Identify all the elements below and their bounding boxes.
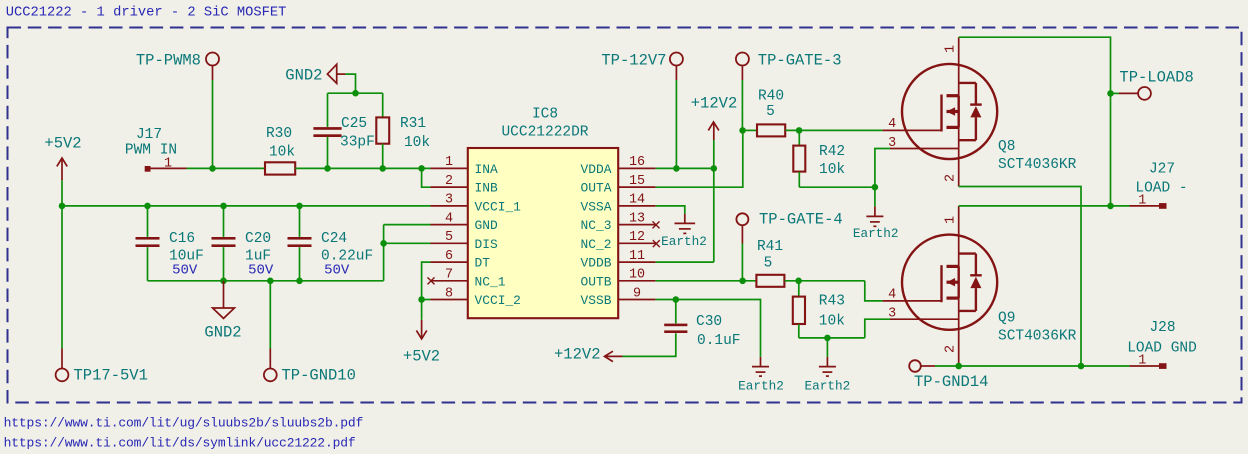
- wire C30 bottom: [623, 333, 676, 356]
- IC8 right pin 14 VSSA: [618, 205, 655, 207]
- no-connect X on pin 13 NC_3: [653, 221, 660, 228]
- svg-text:10k: 10k: [819, 162, 845, 178]
- svg-text:R42: R42: [819, 144, 845, 160]
- transistor Q9 SCT4036KR (N-MOSFET): [902, 235, 997, 330]
- svg-text:C20: C20: [245, 231, 271, 247]
- node R42 top junction: [796, 127, 803, 134]
- wire R41 to Q9 gate: [785, 280, 865, 282]
- svg-text:0.1uF: 0.1uF: [697, 333, 741, 349]
- wire R30 to INA node: [295, 167, 430, 169]
- power symbol +12V2 (arrow left): [605, 351, 613, 361]
- svg-text:Q9: Q9: [998, 311, 1015, 327]
- svg-text:+12V2: +12V2: [691, 95, 738, 113]
- node INB branch junction: [418, 165, 425, 172]
- svg-text:2: 2: [944, 345, 959, 353]
- IC8 left pin 7 NC_1: [431, 280, 468, 282]
- capacitor C24 0.22uF 50V: [299, 206, 301, 237]
- svg-text:R30: R30: [266, 126, 292, 142]
- svg-text:1: 1: [1138, 353, 1146, 368]
- IC8 left pin 5 DIS: [431, 242, 468, 244]
- wire TP-PWM8 down: [212, 80, 214, 168]
- svg-text:NC_2: NC_2: [581, 237, 612, 252]
- op-amp / driver IC8 UCC21222DR body: [468, 148, 618, 318]
- node R40 input junction: [739, 127, 746, 134]
- wire VDDA to +12V rail: [656, 167, 714, 169]
- resistor R30 10k: [265, 162, 295, 174]
- transistor Q8 SCT4036KR (N-MOSFET): [902, 64, 997, 159]
- wire R40 to Q8 gate: [785, 129, 882, 131]
- node VCCI_2 junction: [418, 296, 425, 303]
- svg-text:TP-LOAD8: TP-LOAD8: [1119, 68, 1193, 86]
- svg-text:50V: 50V: [172, 262, 198, 278]
- svg-text:TP-PWM8: TP-PWM8: [136, 51, 201, 69]
- svg-text:GND2: GND2: [285, 66, 322, 84]
- IC8 left pin 4 GND: [431, 224, 468, 226]
- wire C25-R31 top rail: [328, 92, 383, 94]
- svg-text:15: 15: [629, 174, 645, 189]
- svg-text:R31: R31: [400, 116, 426, 132]
- svg-text:4: 4: [888, 117, 896, 132]
- power symbol +12V2 (arrow up): [708, 122, 719, 130]
- svg-text:Earth2: Earth2: [853, 226, 899, 241]
- test point TP-GATE-3: [736, 53, 749, 66]
- svg-text:5: 5: [445, 230, 453, 245]
- svg-text:TP17-5V1: TP17-5V1: [74, 367, 148, 385]
- connector J28 LOAD GND: [1130, 365, 1160, 367]
- svg-text:VDDA: VDDA: [581, 162, 612, 177]
- IC8 left pin 3 VCCI_1: [431, 205, 468, 207]
- Q9 pin 3 line: [890, 318, 959, 320]
- wire OUTA to R40: [656, 130, 743, 187]
- test point TP-GND14: [909, 360, 921, 372]
- Q8 drain pin line: [958, 37, 960, 95]
- node +5V rail junction: [59, 203, 66, 210]
- wire GND2 down: [345, 74, 355, 93]
- svg-text:https://www.ti.com/lit/ug/sluu: https://www.ti.com/lit/ug/sluubs2b/sluub…: [4, 416, 364, 431]
- wire Q8 drain to LOAD- column: [959, 37, 1111, 206]
- IC8 right pin 12 NC_2: [618, 242, 655, 244]
- svg-text:Earth2: Earth2: [661, 234, 707, 249]
- svg-text:UCC21222DR: UCC21222DR: [501, 125, 588, 141]
- svg-text:4: 4: [888, 288, 896, 303]
- svg-text:https://www.ti.com/lit/ds/syml: https://www.ti.com/lit/ds/symlink/ucc212…: [4, 436, 356, 451]
- svg-text:2: 2: [944, 174, 959, 182]
- svg-text:DIS: DIS: [475, 237, 498, 252]
- resistor R31 10k: [376, 117, 389, 143]
- svg-text:C30: C30: [696, 314, 722, 330]
- svg-text:+5V2: +5V2: [403, 348, 440, 366]
- wire OUTB to R41: [656, 280, 757, 282]
- svg-text:14: 14: [629, 193, 645, 208]
- svg-text:10k: 10k: [404, 135, 430, 151]
- node TP-12V7 junction: [673, 165, 680, 172]
- test point TP-GND10: [269, 281, 271, 349]
- test point TP-12V7: [670, 53, 683, 66]
- wire junction to Earth2 (R43): [826, 338, 828, 357]
- ground Earth2 (VSSB): [760, 357, 762, 367]
- IC8 left pin 1 INA: [431, 167, 468, 169]
- wire Q9 pin3 to R43 net: [865, 319, 890, 338]
- capacitor C25 33pF: [313, 127, 341, 130]
- svg-text:VCCI_1: VCCI_1: [475, 199, 522, 214]
- node C20 top junction: [220, 203, 227, 210]
- IC8 left pin 2 INB: [431, 186, 468, 188]
- Q9 gate pin line: [883, 300, 942, 302]
- svg-text:5: 5: [766, 104, 775, 120]
- svg-text:10k: 10k: [269, 145, 295, 161]
- IC8 left pin 6 DT: [431, 261, 468, 263]
- svg-text:INA: INA: [475, 162, 498, 177]
- svg-text:J17: J17: [136, 127, 162, 143]
- svg-text:Earth2: Earth2: [805, 378, 851, 393]
- wire +12V2 vertical to VDDB: [713, 140, 715, 262]
- svg-text:50V: 50V: [324, 262, 350, 278]
- svg-text:1: 1: [1138, 193, 1146, 208]
- resistor R42 10k: [798, 130, 800, 145]
- resistor R40 5: [743, 129, 757, 131]
- node C24 top junction: [296, 203, 303, 210]
- svg-text:1: 1: [445, 155, 453, 170]
- svg-text:6: 6: [445, 249, 453, 264]
- svg-text:Earth2: Earth2: [738, 378, 784, 393]
- wire TP-12V7 down: [675, 80, 677, 168]
- power symbol GND2 (top, arrow left): [327, 64, 336, 83]
- svg-text:TP-GATE-4: TP-GATE-4: [759, 211, 843, 229]
- svg-text:INB: INB: [475, 181, 498, 196]
- svg-text:2: 2: [445, 174, 453, 189]
- wire R31 bottom: [382, 144, 384, 169]
- ground Earth2 (under R42): [874, 207, 876, 217]
- svg-text:1: 1: [944, 216, 959, 224]
- svg-text:GND2: GND2: [204, 324, 241, 342]
- node R43 top junction: [795, 278, 802, 285]
- node C16 top junction: [144, 203, 151, 210]
- wire TP-GATE-3 down: [741, 80, 743, 130]
- Q9 source pin line: [958, 298, 960, 366]
- node R31 bottom junction: [379, 165, 386, 172]
- svg-text:TP-12V7: TP-12V7: [601, 51, 666, 69]
- node TP-GND10 tap junction: [267, 278, 274, 285]
- svg-text:VCCI_2: VCCI_2: [475, 293, 521, 308]
- wire +5V column down to TP17-5V1: [61, 206, 63, 349]
- capacitor C16 10uF 50V: [147, 206, 149, 237]
- wire J17 to R30: [187, 167, 266, 169]
- svg-text:11: 11: [629, 249, 645, 264]
- capacitor C20 1uF 50V: [223, 206, 225, 237]
- svg-text:VDDB: VDDB: [581, 256, 612, 271]
- svg-text:VSSA: VSSA: [581, 199, 612, 214]
- ground Earth2 (VSSA): [684, 214, 686, 224]
- node GND2 rail junction: [352, 90, 359, 97]
- svg-text:9: 9: [633, 286, 641, 301]
- svg-text:+12V2: +12V2: [554, 346, 601, 364]
- node TP-PWM8 tap junction: [209, 165, 216, 172]
- wire to pin 5 DIS: [384, 242, 431, 244]
- svg-text:10k: 10k: [819, 313, 845, 329]
- wire R43 bottom: [798, 324, 800, 338]
- svg-text:UCC21222 - 1 driver - 2 SiC MO: UCC21222 - 1 driver - 2 SiC MOSFET: [6, 5, 287, 21]
- svg-text:+5V2: +5V2: [44, 135, 81, 153]
- svg-text:NC_3: NC_3: [581, 218, 612, 233]
- wire to pin 11 VDDB: [656, 261, 714, 263]
- svg-text:4: 4: [445, 211, 453, 226]
- node Earth2 tap junction: [824, 335, 831, 342]
- svg-text:3: 3: [445, 193, 453, 208]
- wire TP-GND14 to Q9 source: [935, 365, 959, 367]
- node DIS tap junction: [380, 240, 387, 247]
- no-connect X on pin 12 NC_2: [653, 240, 660, 247]
- svg-text:C24: C24: [321, 231, 347, 247]
- wire Q8 pin3 to junction: [875, 149, 890, 188]
- svg-text:TP-GND10: TP-GND10: [282, 367, 356, 385]
- test point TP-GATE-4: [736, 213, 748, 225]
- wire +5V2 to rail: [61, 180, 63, 206]
- svg-text:R43: R43: [819, 294, 845, 310]
- wire GND net vertical: [383, 225, 385, 281]
- svg-text:12: 12: [629, 230, 645, 245]
- IC8 right pin 10 OUTB: [618, 280, 655, 282]
- node TP-GATE-4 junction: [739, 278, 746, 285]
- node TP-LOAD8 junction: [1107, 90, 1114, 97]
- wire to pin 8 VCCI_2: [422, 299, 431, 301]
- svg-text:DT: DT: [475, 256, 491, 271]
- Q8 gate pin line: [883, 129, 942, 131]
- test point TP-LOAD8: [1111, 92, 1120, 94]
- ground Earth2 (under R43): [826, 357, 828, 367]
- IC8 right pin 9 VSSB: [618, 299, 655, 301]
- wire C25 bottom: [327, 137, 329, 169]
- wire DT net: [422, 262, 431, 320]
- svg-text:1: 1: [944, 45, 959, 53]
- svg-text:R40: R40: [758, 88, 784, 104]
- svg-text:10: 10: [629, 268, 645, 283]
- Q9 drain pin line: [958, 206, 960, 267]
- svg-text:7: 7: [445, 268, 453, 283]
- wire to R31 top: [382, 93, 384, 117]
- IC8 right pin 16 VDDA: [618, 167, 655, 169]
- wire INB branch: [422, 168, 431, 187]
- svg-text:C16: C16: [169, 231, 195, 247]
- svg-text:OUTA: OUTA: [581, 181, 612, 196]
- IC8 right pin 11 VDDB: [618, 261, 655, 263]
- node C30 top junction: [673, 296, 680, 303]
- no-connect X on pin 7 NC_1: [428, 277, 435, 284]
- wire VSSA to Earth2: [656, 206, 685, 214]
- wire J28 row: [959, 365, 1130, 367]
- svg-text:SCT4036KR: SCT4036KR: [998, 329, 1077, 345]
- svg-text:8: 8: [445, 286, 453, 301]
- power symbol +5V2 (top left arrow up): [57, 158, 67, 166]
- wire GND bottom rail: [148, 280, 384, 282]
- wire to pin 4 GND: [384, 224, 431, 226]
- test point TP-PWM8: [206, 53, 219, 66]
- wire VSSB net: [656, 300, 761, 357]
- svg-text:J27: J27: [1149, 161, 1175, 177]
- resistor R41 5: [756, 275, 784, 287]
- svg-text:TP-GND14: TP-GND14: [914, 373, 988, 391]
- wire +5V rail horizontal: [62, 205, 431, 207]
- wire R42 bottom: [798, 172, 800, 187]
- svg-text:C25: C25: [341, 116, 367, 132]
- power symbol GND2 (bottom, arrow down): [223, 281, 225, 308]
- wire Q9 drain to J27: [959, 205, 1111, 207]
- IC8 right pin 15 OUTA: [618, 186, 655, 188]
- capacitor C30 0.1uF: [675, 300, 677, 324]
- svg-text:3: 3: [888, 136, 896, 151]
- wire to C25 top: [327, 93, 329, 127]
- node C20 bottom / GND2 junction: [220, 278, 227, 285]
- wire junction to Earth2: [874, 187, 876, 206]
- node Q8 source-sense junction: [872, 184, 879, 191]
- node Q9 source junction: [955, 363, 962, 370]
- resistor R43 10k: [798, 281, 800, 297]
- svg-text:33pF: 33pF: [340, 134, 375, 150]
- wire TP-GATE-4 down: [741, 244, 743, 281]
- Q8 source pin line: [958, 127, 960, 186]
- IC8 right pin 13 NC_3: [618, 224, 655, 226]
- Q8 pin 3 line: [890, 148, 959, 150]
- svg-text:Q8: Q8: [998, 139, 1015, 155]
- node C24 bottom junction: [296, 278, 303, 285]
- svg-text:SCT4036KR: SCT4036KR: [998, 157, 1077, 173]
- svg-text:NC_1: NC_1: [475, 274, 506, 289]
- svg-text:3: 3: [888, 306, 896, 321]
- svg-text:IC8: IC8: [532, 106, 558, 122]
- svg-text:J28: J28: [1149, 320, 1175, 336]
- svg-text:OUTB: OUTB: [581, 274, 612, 289]
- wire Q8 source down to J28 row: [959, 187, 1081, 367]
- svg-text:1: 1: [164, 157, 172, 172]
- svg-text:50V: 50V: [248, 262, 274, 278]
- svg-text:VSSB: VSSB: [581, 293, 612, 308]
- svg-text:13: 13: [629, 211, 645, 226]
- connector J27 LOAD -: [1130, 205, 1160, 207]
- svg-text:TP-GATE-3: TP-GATE-3: [758, 51, 842, 69]
- power symbol +5V2 (arrow down): [421, 320, 423, 339]
- svg-text:5: 5: [764, 255, 773, 271]
- IC8 left pin 8 VCCI_2: [431, 299, 468, 301]
- node C25 bottom junction: [324, 165, 331, 172]
- connector J17 PWM IN: [145, 166, 151, 172]
- node LOAD GND junction: [1078, 363, 1085, 370]
- node J27 junction: [1107, 203, 1114, 210]
- test point TP17-5V1: [61, 349, 63, 369]
- node +12V2 junction: [711, 165, 718, 172]
- svg-text:GND: GND: [475, 218, 498, 233]
- svg-text:16: 16: [629, 155, 645, 170]
- svg-text:R41: R41: [757, 239, 783, 255]
